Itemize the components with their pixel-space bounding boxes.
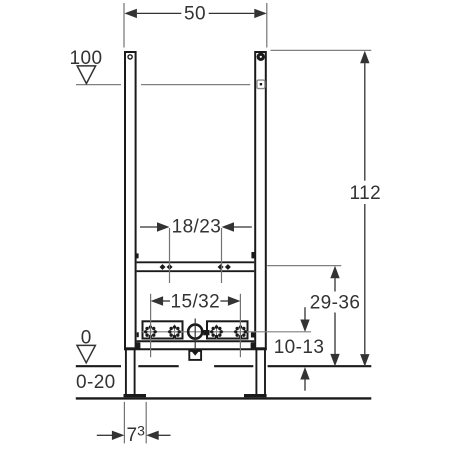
svg-text:15/32: 15/32	[171, 292, 221, 313]
svg-text:18/23: 18/23	[172, 217, 222, 238]
svg-text:50: 50	[184, 3, 206, 24]
svg-text:0-20: 0-20	[76, 372, 116, 393]
svg-text:10-13: 10-13	[274, 337, 325, 358]
svg-text:112: 112	[350, 183, 382, 204]
svg-text:100: 100	[70, 48, 103, 69]
svg-text:29-36: 29-36	[310, 293, 361, 314]
svg-text:0: 0	[81, 328, 92, 349]
